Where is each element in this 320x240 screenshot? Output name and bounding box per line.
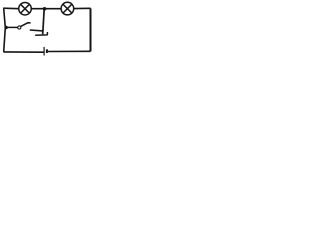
wire bottom-right segment — [48, 50, 91, 52]
wire bottom-left segment — [3, 51, 43, 53]
wire top-right segment — [74, 7, 91, 9]
wire switch output to node — [30, 29, 43, 32]
lamp L2 — [61, 2, 74, 15]
wire top-left segment — [3, 7, 19, 10]
wire foot hook below node — [35, 32, 47, 35]
wire top-middle segment — [31, 8, 61, 10]
wire switch feed — [5, 26, 17, 28]
lamp L1 — [19, 2, 32, 15]
switch S1 pivot — [18, 26, 21, 29]
wire center vertical from junction dot — [43, 9, 45, 34]
node junction dot on top wire — [43, 7, 47, 11]
switch S1 lever (open) — [21, 23, 31, 27]
wire left vertical — [4, 8, 6, 52]
wire right vertical — [90, 8, 92, 51]
node T-junction dot left — [4, 26, 7, 29]
battery cell B1 — [44, 47, 47, 56]
